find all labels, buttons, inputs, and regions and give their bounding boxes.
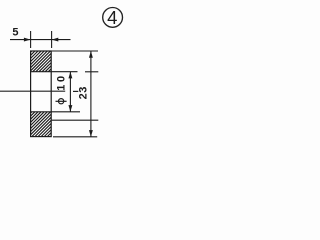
extra horizontal reference line at lower right — [52, 119, 99, 121]
bore top edge + phi10 top extension line — [31, 71, 78, 73]
dimension 5: dimension line — [10, 39, 71, 41]
dimension 23: down arrow — [89, 130, 93, 137]
dimension 23: top extension line — [52, 50, 98, 52]
dimension 5: right extension line — [51, 31, 53, 48]
svg-text:4: 4 — [107, 7, 117, 28]
bore bottom edge + phi10 bottom extension line — [31, 111, 80, 113]
center line (part axis) — [0, 90, 65, 92]
dimension phi10: up arrow — [68, 72, 72, 79]
svg-text:10: 10 — [56, 73, 68, 90]
center line dash right of phi10 dimension — [73, 90, 78, 92]
balloon circle (item number 4) — [103, 8, 123, 28]
dimension 23: bottom extension line — [53, 136, 97, 138]
dimension 23: dimension line — [90, 51, 92, 136]
svg-text:5: 5 — [12, 26, 18, 38]
dimension phi10: diameter symbol (drawn circle + stem) — [56, 99, 67, 104]
dimension 5: left-pointing arrow — [52, 38, 59, 42]
dimension 23: up arrow — [89, 51, 93, 58]
part outline rectangle — [31, 51, 52, 137]
dimension 5: left extension line — [30, 31, 32, 48]
hatched upper wall of section — [31, 51, 52, 72]
svg-text:23: 23 — [78, 86, 90, 99]
dimension phi10: dimension line — [69, 72, 71, 112]
second segment of bore-top extension line crossing 23 dimension line — [85, 71, 98, 73]
dimension 5: right-pointing arrow — [24, 38, 31, 42]
dimension phi10: down arrow — [68, 105, 72, 112]
hatched lower wall of section — [31, 112, 52, 137]
